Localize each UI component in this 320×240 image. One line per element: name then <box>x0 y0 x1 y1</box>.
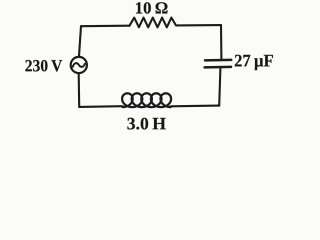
wire top right segment <box>176 24 221 26</box>
wire bottom left segment <box>79 105 122 108</box>
ac source circle <box>71 57 87 73</box>
wire bottom right segment <box>171 105 219 108</box>
resistor 10 ohm <box>130 18 177 28</box>
inductor 3.0 H coil <box>122 93 171 107</box>
label 27 uF <box>235 55 273 70</box>
wire right lower segment <box>219 68 220 105</box>
capacitor 27 uF bottom plate <box>205 66 231 69</box>
wire left lower segment <box>78 74 81 107</box>
wire right upper segment <box>220 25 222 59</box>
label 3.0 H <box>127 118 165 130</box>
capacitor 27 uF top plate <box>205 59 231 62</box>
wire top left segment <box>81 25 130 28</box>
wire left upper segment <box>79 26 81 56</box>
label 230 V <box>25 60 62 72</box>
label 10 ohm <box>136 2 167 13</box>
ac source sine wave <box>73 63 85 67</box>
